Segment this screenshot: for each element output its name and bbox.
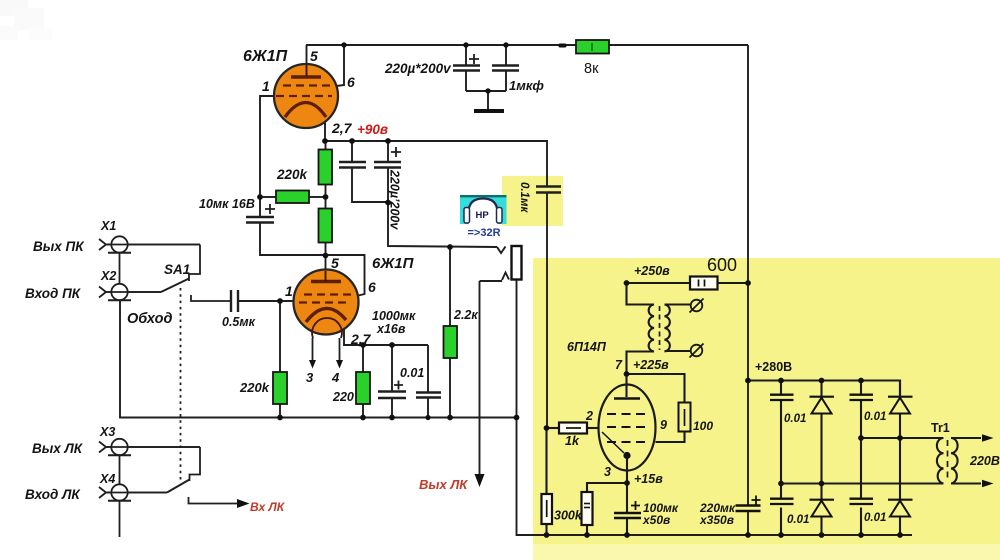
resistor R11 cathode xyxy=(582,492,593,525)
svg-text:10мк 16В: 10мк 16В xyxy=(199,197,255,211)
wire: C4 220u'200v lead xyxy=(387,141,389,161)
node: gnd Dd xyxy=(897,532,903,538)
tube V2 grid dashes xyxy=(304,293,352,295)
node: rail Cb xyxy=(858,378,864,384)
resistor R7 2.2k xyxy=(444,326,458,358)
capacitor Cd 0.01 plates xyxy=(850,499,874,504)
plus sign C4 xyxy=(391,147,401,157)
node: pin6 V1 on rail xyxy=(341,42,346,47)
junction blob on wire xyxy=(559,44,567,48)
svg-text:6: 6 xyxy=(368,279,376,295)
node: gnd V3 xyxy=(624,532,630,538)
svg-text:100: 100 xyxy=(693,419,713,433)
arrow Vh LK line xyxy=(189,497,238,504)
node: R1 R2 R3 join xyxy=(323,194,329,200)
wire: +250v node to resistor 600 xyxy=(627,282,691,284)
wire: cathode pin 3 xyxy=(626,455,628,512)
svg-text:0.01: 0.01 xyxy=(400,366,424,380)
arrow 220V bottom xyxy=(982,480,994,488)
wire: 0.1mk down to 1k node xyxy=(546,193,548,428)
transformer Tr1 secondary winding xyxy=(951,438,958,484)
svg-text:2,7: 2,7 xyxy=(350,331,372,347)
capacitor C7 1000mk plates xyxy=(378,392,406,399)
headphone icon box xyxy=(460,195,507,224)
svg-text:X1: X1 xyxy=(100,219,116,233)
svg-text:Обход: Обход xyxy=(127,311,172,327)
svg-text:220k: 220k xyxy=(239,380,270,395)
heater pin 4 arrow xyxy=(339,338,341,361)
node: gnd 300k xyxy=(544,532,550,538)
wire: diode Db xyxy=(899,414,901,439)
wire: pin7 node to R 100 xyxy=(627,374,685,402)
resistor R4 8k xyxy=(576,40,609,54)
tube V1 grid dashes xyxy=(283,84,333,86)
transformer Tr1 primary winding xyxy=(937,438,944,484)
svg-text:7: 7 xyxy=(615,358,623,372)
wire X1 to X2 xyxy=(119,253,121,285)
wire: mid wire to Tr1 top xyxy=(861,437,943,439)
svg-text:0.01: 0.01 xyxy=(784,413,806,425)
wire: Tr1 secondary top to arrow xyxy=(951,437,981,439)
tube V3 6P14P envelope xyxy=(599,385,656,471)
node: C4 top xyxy=(385,138,391,144)
node: V2 cathode R6 xyxy=(360,342,366,348)
switch SA1b fixed contact bracket xyxy=(190,447,201,481)
node: V2 pin5 xyxy=(323,253,329,259)
wire: C 0.01 leads xyxy=(427,345,429,392)
node: 2.2k top xyxy=(447,244,453,250)
capacitor Cc 0.01 plates xyxy=(770,499,794,504)
wire X4 stub down xyxy=(119,501,121,537)
wire: +280V rail xyxy=(748,381,900,396)
node: +250v xyxy=(624,280,630,286)
svg-text:6Ж1П: 6Ж1П xyxy=(372,255,415,272)
svg-text:х16в: х16в xyxy=(376,322,406,336)
capacitor C2 1mkf plates xyxy=(492,66,519,71)
wire: filter cap Cc leads xyxy=(780,484,782,499)
wire: filter cap Cb leads xyxy=(860,381,862,395)
svg-text:X4: X4 xyxy=(99,472,115,486)
wire: V2 cathode xyxy=(344,329,428,345)
diode Db symbol xyxy=(888,396,913,398)
secondary terminal bottom xyxy=(691,345,703,357)
node: ground join xyxy=(485,88,490,93)
secondary terminal top xyxy=(691,300,703,312)
wire: Tr1 secondary bottom to arrow xyxy=(951,482,981,484)
wire: R 220 leads xyxy=(362,345,364,372)
node: C2 on rail xyxy=(503,42,508,47)
wire: ground stem xyxy=(487,91,489,109)
resistor R10 300k xyxy=(542,494,553,524)
capacitor C3 plates xyxy=(339,162,366,168)
capacitor C6 0.1mk plates xyxy=(536,187,561,193)
node: bottom wire R5 xyxy=(277,415,283,421)
plus sign C11 xyxy=(752,496,761,505)
wire: C 1000mk leads xyxy=(391,345,393,391)
wire: jack ring contact xyxy=(480,280,503,282)
wire: C1 220u lead xyxy=(465,45,467,65)
node: V1 anode 2,7 xyxy=(322,138,328,144)
connector X3 xyxy=(99,439,200,455)
wire: secondary top lead xyxy=(665,303,691,305)
highlight box around C 0.1mk xyxy=(502,176,563,226)
svg-text:6: 6 xyxy=(347,74,355,90)
arrow 220V top xyxy=(982,434,994,442)
wire: R1 leads xyxy=(325,141,327,150)
ground symbol xyxy=(474,109,504,113)
plus sign C5 xyxy=(265,204,275,214)
svg-text:X2: X2 xyxy=(100,269,116,283)
tube V1 cathode arc xyxy=(285,103,326,118)
node: V2 grid input xyxy=(277,298,283,304)
resistor R1 220k upper xyxy=(319,150,333,185)
wire: R2 leads xyxy=(325,197,327,209)
svg-text:1000мк: 1000мк xyxy=(372,309,416,323)
svg-text:х350в: х350в xyxy=(699,513,734,527)
capacitor C8 0.01 plates xyxy=(416,393,441,398)
svg-text:0.01: 0.01 xyxy=(864,512,886,524)
wire: V1 pin1 grid line xyxy=(260,96,274,216)
wire: diode Da xyxy=(820,381,822,398)
wire X3 to X4 xyxy=(119,455,121,485)
svg-text:0.1мк: 0.1мк xyxy=(518,182,530,213)
output jack plug xyxy=(512,246,522,280)
svg-text:6Ж1П: 6Ж1П xyxy=(243,48,288,65)
svg-text:Вх ЛК: Вх ЛК xyxy=(250,500,286,514)
svg-text:9: 9 xyxy=(660,418,667,432)
svg-text:220: 220 xyxy=(332,390,354,404)
resistor R2 220k lower xyxy=(319,209,333,243)
wire: V2 pin5 pin6 xyxy=(326,255,365,297)
svg-text:X3: X3 xyxy=(99,425,115,439)
svg-text:HP: HP xyxy=(476,210,490,221)
node: rail Da xyxy=(819,378,825,384)
wire: resistor 600 to right rail xyxy=(718,282,749,284)
svg-text:600: 600 xyxy=(707,255,737,275)
resistor R5 220k grid leak xyxy=(273,372,287,404)
capacitor C5 10mk 16V plates xyxy=(246,217,274,223)
wire: R3 right lead xyxy=(309,196,325,198)
wire: C2 1mkf lead xyxy=(505,45,507,65)
capacitor C10 100mk plates xyxy=(614,513,641,518)
svg-text:Вход ЛК: Вход ЛК xyxy=(25,487,81,502)
connector X1 xyxy=(99,236,200,252)
node: C1 on rail xyxy=(463,42,468,47)
output transformer secondary winding xyxy=(665,305,670,352)
output transformer core xyxy=(659,306,661,350)
wire: diode Dc xyxy=(820,484,822,501)
svg-text:1: 1 xyxy=(285,283,293,299)
node: grid node 1k xyxy=(544,425,550,431)
svg-text:0.5мк: 0.5мк xyxy=(222,315,256,329)
resistor R3 horizontal xyxy=(276,191,309,204)
capacitor C1 220u*200v plates xyxy=(453,66,480,71)
svg-text:х50в: х50в xyxy=(642,513,670,527)
diode Dc symbol xyxy=(810,499,835,501)
diode Da symbol xyxy=(810,396,835,398)
tube V3 cathode dot xyxy=(623,452,630,459)
node: bottom wire C7 xyxy=(389,415,395,421)
svg-text:Вых ЛК: Вых ЛК xyxy=(419,477,468,492)
wire: node A horizontal to 0.1mk xyxy=(325,141,547,186)
wire: lower wire to Tr1 bottom xyxy=(781,482,943,484)
headphone dome xyxy=(469,198,498,225)
node: V2 cathode C7 xyxy=(389,342,395,348)
node: lower Da xyxy=(819,481,825,487)
node: mid Cb xyxy=(858,435,864,441)
svg-text:0.01: 0.01 xyxy=(864,411,886,423)
capacitor C11 220mk plates xyxy=(736,506,761,512)
switch SA1b lever xyxy=(167,480,190,493)
resistor R12 100 xyxy=(679,403,691,432)
svg-text:Вых ЛК: Вых ЛК xyxy=(32,441,84,456)
wire: R 2.2k leads xyxy=(449,247,451,326)
connector X4 xyxy=(99,484,167,500)
wire: output arrow line xyxy=(479,281,481,474)
tube V1 anode bar xyxy=(291,75,321,78)
tube V2 heater loop xyxy=(312,318,342,338)
svg-text:1: 1 xyxy=(262,78,270,94)
svg-text:3: 3 xyxy=(306,370,314,385)
node: bottom wire jack xyxy=(514,415,520,421)
headphone ear pads xyxy=(464,208,470,224)
node: bottom wire 2.2k xyxy=(447,415,453,421)
svg-text:220µ*200v: 220µ*200v xyxy=(384,61,452,76)
svg-text:1мкф: 1мкф xyxy=(509,78,544,93)
node: R3 left xyxy=(257,194,263,200)
tube V3 anode bar xyxy=(614,397,640,400)
svg-text:=>32R: =>32R xyxy=(468,227,501,239)
plus sign C1 xyxy=(469,54,479,64)
output arrow head xyxy=(475,474,485,487)
svg-text:+225в: +225в xyxy=(633,358,669,372)
diode Dd symbol xyxy=(888,499,913,501)
plus sign C10 xyxy=(631,501,640,510)
node: pin7 +225v xyxy=(624,371,630,377)
tube V2 6Zh1P envelope xyxy=(294,270,359,335)
svg-text:4: 4 xyxy=(331,370,340,385)
node: +280V xyxy=(745,378,751,384)
tube V2 anode bar xyxy=(311,280,341,283)
tube V2 cathode arc xyxy=(306,308,346,322)
node: gnd Cc xyxy=(778,532,784,538)
svg-text:8к: 8к xyxy=(584,61,599,77)
wire: cathode resistor branch xyxy=(587,483,627,492)
wire: R3 left lead xyxy=(260,196,276,198)
wire: V1 anode node 2,7 xyxy=(324,121,326,141)
wire: secondary bottom lead xyxy=(665,350,691,352)
wire: 1k right lead to pin 2 xyxy=(587,427,599,429)
heater pin 3 arrow xyxy=(312,338,314,361)
wire: primary bottom lead to pin 7 xyxy=(627,352,655,398)
wire: R 100 bottom to pin 9 xyxy=(656,432,685,443)
wire: jack tip contact V xyxy=(497,247,506,254)
node: C3 top xyxy=(349,138,355,144)
svg-text:2: 2 xyxy=(585,409,593,423)
capacitor C9 0.5mk plates xyxy=(231,290,238,312)
arrow Vh LK head xyxy=(237,499,250,508)
svg-text:SA1: SA1 xyxy=(164,262,190,277)
wire: filter cap Cd leads xyxy=(860,438,862,498)
node: gnd Cd xyxy=(858,532,864,538)
node: bottom wire R6 xyxy=(360,415,366,421)
svg-text:3: 3 xyxy=(604,465,611,479)
svg-text:5: 5 xyxy=(310,48,318,64)
switch SA1 lower contact xyxy=(191,295,230,301)
node: +15v xyxy=(624,480,630,486)
wire: V2 grid leak down xyxy=(279,301,281,372)
wire: diode Dd xyxy=(899,438,901,500)
svg-text:0.01: 0.01 xyxy=(787,514,809,526)
wire: bottom left common xyxy=(120,300,517,418)
output transformer primary winding xyxy=(649,305,654,352)
tube V3 grid diagonal xyxy=(602,432,624,453)
node: rail Ca xyxy=(778,378,784,384)
node: mid Db xyxy=(897,435,903,441)
svg-text:300k: 300k xyxy=(554,509,583,523)
plus sign C7 xyxy=(394,381,403,390)
node: gnd R11 xyxy=(584,532,590,538)
svg-text:+90в: +90в xyxy=(357,122,388,137)
dotted link SA1 xyxy=(180,288,182,483)
tube V1 6Zh1P envelope xyxy=(274,64,338,128)
highlight strip bottom xyxy=(533,544,1000,560)
wire: grid node down to 300k xyxy=(545,428,547,494)
node: gnd Dc xyxy=(819,532,825,538)
wire: C3 lead xyxy=(351,141,353,161)
svg-text:+15в: +15в xyxy=(634,472,663,486)
wire: join below C1 C2 xyxy=(466,90,506,92)
svg-text:220k: 220k xyxy=(276,167,309,182)
svg-text:2.2к: 2.2к xyxy=(453,308,478,322)
svg-text:220В: 220В xyxy=(969,454,1000,468)
node: bottom wire C8 xyxy=(425,415,430,420)
capacitor Ca 0.01 plates xyxy=(770,395,794,400)
node: C3 C4 bottom join xyxy=(385,200,391,206)
resistor R9 1k xyxy=(559,423,587,434)
svg-text:Tr1: Tr1 xyxy=(931,421,950,435)
capacitor Cb 0.01 plates xyxy=(850,395,874,400)
wire: filter cap Ca leads xyxy=(780,381,782,395)
wire: tube V1 pin 5 xyxy=(306,45,308,65)
switch SA1 lever xyxy=(161,279,189,293)
wire: top supply rail xyxy=(306,44,576,46)
capacitor C4 220u200v plates xyxy=(374,162,401,168)
svg-text:6П14П: 6П14П xyxy=(567,340,607,354)
svg-text:Вых ПК: Вых ПК xyxy=(33,239,85,254)
tube V3 grid dashes xyxy=(607,413,647,415)
svg-text:2,7: 2,7 xyxy=(331,120,353,136)
transformer Tr1 core xyxy=(947,440,949,482)
svg-text:220µ’200v: 220µ’200v xyxy=(388,169,402,230)
svg-text:+250в: +250в xyxy=(634,264,670,278)
node: lower Ca xyxy=(778,481,784,487)
connector X2 xyxy=(99,284,161,300)
wire: tube V1 pin 6 xyxy=(333,45,344,87)
wire: jack sleeve to ground xyxy=(517,280,913,536)
node: gnd C11 xyxy=(745,532,751,538)
svg-text:1k: 1k xyxy=(565,434,580,448)
svg-text:5: 5 xyxy=(331,255,339,271)
highlight region: power supply (yellow) xyxy=(533,258,1000,544)
wire: 1k left lead xyxy=(547,427,559,429)
node: rail 600 xyxy=(745,280,751,286)
svg-text:Вход ПК: Вход ПК xyxy=(25,286,82,301)
resistor R8 600 xyxy=(690,277,718,290)
switch SA1 fixed contact bracket xyxy=(189,245,200,282)
resistor R6 220 cathode xyxy=(356,372,370,404)
wire: primary top lead xyxy=(627,283,655,305)
wire: V2 pin1 grid xyxy=(239,300,294,302)
faint corner smudges xyxy=(0,0,52,40)
wire: right vertical drop from 8k xyxy=(747,45,749,505)
svg-text:+280В: +280В xyxy=(755,360,792,374)
